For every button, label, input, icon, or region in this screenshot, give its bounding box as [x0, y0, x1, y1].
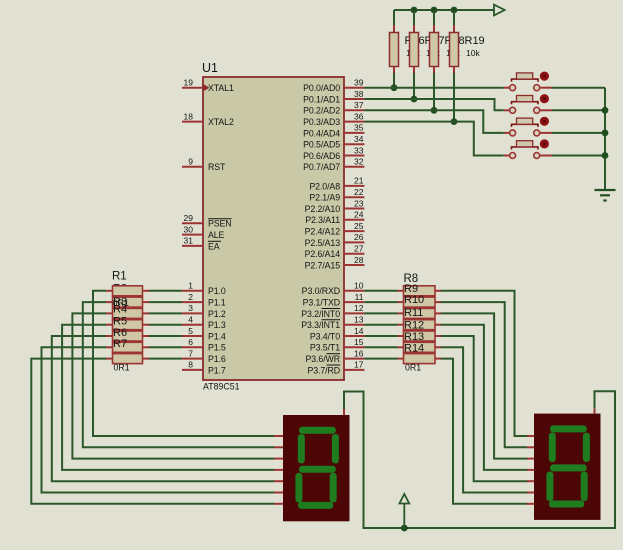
overline RD: [327, 364, 341, 366]
svg-text:P2.7/A15: P2.7/A15: [305, 260, 341, 270]
pin XTAL1 (19) left stub: [182, 87, 203, 89]
wire P0.1 to button SW2: [364, 99, 503, 110]
svg-text:P2.1/A9: P2.1/A9: [309, 193, 340, 203]
svg-text:5: 5: [188, 326, 193, 336]
resistor R19: [450, 33, 459, 67]
svg-text:18: 18: [184, 111, 194, 121]
wire R5 to P1.4: [143, 335, 150, 337]
svg-text:R14: R14: [404, 343, 424, 355]
svg-text:39: 39: [354, 78, 364, 88]
pin RST (9) left stub: [182, 166, 203, 168]
pin P1.5 (6) left stub: [182, 346, 203, 348]
svg-text:P3.1/TXD: P3.1/TXD: [303, 298, 340, 308]
resistor R8 body: [404, 286, 436, 296]
wire R18 top lead: [433, 10, 435, 25]
svg-text:P1.7: P1.7: [208, 365, 226, 375]
svg-text:R12: R12: [404, 320, 424, 332]
ground symbol: [595, 190, 616, 201]
resistor R13 body: [404, 342, 436, 352]
pin P1.1 (2) left stub: [182, 301, 203, 303]
overline INT1: [322, 319, 341, 321]
svg-text:P3.7/RD: P3.7/RD: [307, 365, 340, 375]
wire P3.6 to R14: [364, 358, 397, 360]
pin P2.5/A13 (26) right stub: [344, 241, 364, 243]
svg-text:29: 29: [184, 213, 194, 223]
segment F of right: [549, 433, 556, 462]
svg-text:R10: R10: [404, 294, 424, 306]
svg-text:P2.5/A13: P2.5/A13: [305, 238, 341, 248]
svg-text:7: 7: [188, 348, 193, 358]
wire R17 top lead: [413, 10, 415, 25]
node junction R19 bottom on P0.3 net: [451, 118, 458, 125]
svg-text:P0.5/AD5: P0.5/AD5: [303, 140, 340, 150]
svg-text:P1.3: P1.3: [208, 320, 226, 330]
svg-text:P2.2/A10: P2.2/A10: [305, 204, 341, 214]
svg-text:10: 10: [354, 281, 364, 291]
wire R10 to display pin 3: [435, 312, 441, 314]
svg-text:RST: RST: [208, 162, 226, 172]
wire R6 to display pin 6: [106, 346, 113, 348]
wire P3.3 to R11: [364, 324, 397, 326]
7-segment display left body: [283, 415, 350, 521]
pin P3.4/T0 (14) right stub: [344, 335, 364, 337]
pin XTAL1 clock arrow: [203, 84, 210, 92]
resistor R10 body: [404, 308, 436, 318]
power arrow up (common): [403, 504, 405, 529]
svg-text:16: 16: [354, 348, 364, 358]
svg-text:0R1: 0R1: [114, 363, 130, 373]
segment B of left: [332, 434, 339, 463]
pin P3.2/INT0 (12) right stub: [344, 312, 364, 314]
segment G of left: [299, 466, 336, 473]
svg-text:XTAL2: XTAL2: [208, 117, 234, 127]
svg-text:21: 21: [354, 176, 364, 186]
pin P0.1/AD1 (38) right stub: [344, 98, 364, 100]
resistor R16: [390, 33, 399, 67]
wire P3.1 to R9: [364, 301, 397, 303]
overline INT0: [322, 308, 341, 310]
svg-text:28: 28: [354, 255, 364, 265]
node junction bottom rail at power arrow: [401, 525, 408, 532]
wire R12 to display pin 5: [435, 335, 441, 337]
segment G of right: [550, 464, 587, 471]
wire R1 to P1.0: [143, 290, 150, 292]
svg-text:R7: R7: [113, 338, 127, 350]
pin P2.2/A10 (23) right stub: [344, 208, 364, 210]
resistor R9 body: [404, 297, 436, 307]
svg-text:R6: R6: [113, 327, 127, 339]
node junction SW2 ground: [602, 107, 609, 114]
svg-text:P0.2/AD2: P0.2/AD2: [303, 106, 340, 116]
pin P1.3 (4) left stub: [182, 324, 203, 326]
wire R3 to P1.2: [143, 312, 150, 314]
wire R19 top lead: [453, 10, 455, 25]
pin P3.0/RXD (10) right stub: [344, 290, 364, 292]
svg-text:U1: U1: [202, 61, 218, 75]
svg-text:23: 23: [354, 198, 364, 208]
svg-text:P1.1: P1.1: [208, 298, 226, 308]
pin P1.7 (8) left stub: [182, 369, 203, 371]
svg-text:P3.4/T0: P3.4/T0: [310, 331, 340, 341]
pin P0.0/AD0 (39) right stub: [344, 87, 364, 89]
wire R7 to display pin 7: [106, 358, 113, 360]
svg-text:34: 34: [354, 134, 364, 144]
svg-text:R13: R13: [404, 331, 424, 343]
pin P1.2 (3) left stub: [182, 312, 203, 314]
pin P3.5/T1 (15) right stub: [344, 346, 364, 348]
resistor R6 body: [113, 342, 143, 352]
svg-text:P2.4/A12: P2.4/A12: [305, 227, 341, 237]
svg-text:XTAL1: XTAL1: [208, 83, 234, 93]
node junction R16 bottom on P0.0 net: [391, 84, 398, 91]
svg-text:P3.6/WR: P3.6/WR: [306, 354, 341, 364]
resistor R2 body: [113, 297, 143, 307]
svg-text:P1.5: P1.5: [208, 343, 226, 353]
segment F of left: [298, 434, 305, 463]
svg-text:P0.7/AD7: P0.7/AD7: [303, 162, 340, 172]
svg-text:24: 24: [354, 210, 364, 220]
segment B of right: [583, 433, 590, 462]
wire R16 bottom lead: [393, 67, 395, 74]
svg-text:R4: R4: [113, 304, 127, 316]
wire button SW1 to ground bus: [540, 87, 552, 89]
node junction SW3 ground: [602, 130, 609, 137]
svg-text:31: 31: [184, 236, 194, 246]
svg-text:15: 15: [354, 337, 364, 347]
power arrow right: [494, 5, 505, 16]
pin P1.0 (1) left stub: [182, 290, 203, 292]
push button SW4: [510, 139, 549, 158]
wire ground bus vertical: [604, 88, 606, 189]
segment E of left: [295, 473, 302, 503]
wire R13 to display pin 6: [435, 346, 441, 348]
pin P3.7/RD (17) right stub: [344, 369, 364, 371]
wire button SW2 to ground bus: [540, 109, 552, 111]
resistor R17: [410, 33, 419, 67]
node junction SW4 ground: [602, 152, 609, 159]
svg-text:30: 30: [184, 224, 194, 234]
wire P3.5 to R13: [364, 346, 397, 348]
resistor R18: [430, 33, 439, 67]
wire R4 to P1.3: [143, 324, 150, 326]
pin EA (31) left stub: [182, 245, 203, 247]
pin P0.2/AD2 (37) right stub: [344, 109, 364, 111]
svg-text:P1.2: P1.2: [208, 309, 226, 319]
pin P2.4/A12 (25) right stub: [344, 230, 364, 232]
svg-text:36: 36: [354, 111, 364, 121]
pin P2.0/A8 (21) right stub: [344, 185, 364, 187]
svg-text:27: 27: [354, 244, 364, 254]
wire button SW3 to ground bus: [540, 132, 552, 134]
node junction R17 top: [411, 7, 418, 14]
resistor R12 body: [404, 331, 436, 341]
pin P1.6 (7) left stub: [182, 358, 203, 360]
resistor R1 body: [113, 286, 143, 296]
pin P3.1/TXD (11) right stub: [344, 301, 364, 303]
wire P3.2 to R10: [364, 312, 397, 314]
wire P3.0 to R8: [364, 290, 397, 292]
resistor R5 body: [113, 331, 143, 341]
wire R2 to P1.1: [143, 301, 150, 303]
segment A of left: [299, 427, 336, 434]
wire P0.2 to button SW3: [364, 110, 503, 133]
wire R4 to display pin 4: [106, 324, 113, 326]
segment C of left: [330, 473, 337, 503]
wire P3.4 to R12: [364, 335, 397, 337]
wire R18 bottom lead: [433, 67, 435, 74]
push button SW3: [510, 117, 549, 136]
7-segment display right body: [534, 414, 601, 520]
wire R19 bottom lead: [453, 67, 455, 74]
svg-text:P1.4: P1.4: [208, 331, 226, 341]
wire power bus top: [394, 9, 494, 11]
resistor R4 body: [113, 320, 143, 330]
overline WR: [327, 353, 341, 355]
pin P2.3/A11 (24) right stub: [344, 219, 364, 221]
svg-text:25: 25: [354, 221, 364, 231]
svg-text:R11: R11: [404, 307, 423, 319]
wire P0.3 to button SW4: [364, 122, 503, 156]
node junction R17 bottom on P0.1 net: [411, 96, 418, 103]
pin P0.3/AD3 (36) right stub: [344, 121, 364, 123]
segment D of right: [549, 501, 584, 508]
segment C of right: [581, 472, 588, 502]
push button SW1: [510, 72, 549, 91]
svg-text:P1.0: P1.0: [208, 286, 226, 296]
pin P3.6/WR (16) right stub: [344, 358, 364, 360]
svg-text:22: 22: [354, 187, 364, 197]
svg-text:26: 26: [354, 232, 364, 242]
svg-text:P0.4/AD4: P0.4/AD4: [303, 128, 340, 138]
wire button SW4 to ground bus: [540, 155, 552, 157]
svg-text:6: 6: [188, 337, 193, 347]
wire R3 to display pin 3: [106, 312, 113, 314]
pin XTAL2 (18) left stub: [182, 121, 203, 123]
wire R7 to P1.6: [143, 358, 150, 360]
pin P2.7/A15 (28) right stub: [344, 264, 364, 266]
svg-text:3: 3: [188, 303, 193, 313]
node junction R18 top: [431, 7, 438, 14]
pin PSEN (29) left stub: [182, 222, 203, 224]
node junction R18 bottom on P0.2 net: [431, 107, 438, 114]
pin P0.4/AD4 (35) right stub: [344, 132, 364, 134]
chip U1 AT89C51 body: [203, 77, 344, 380]
svg-text:P0.6/AD6: P0.6/AD6: [303, 151, 340, 161]
svg-text:12: 12: [354, 303, 364, 313]
node junction R19 top: [451, 7, 458, 14]
push button SW2: [510, 94, 549, 113]
wire R16 top lead: [393, 10, 395, 25]
svg-text:11: 11: [355, 292, 364, 302]
svg-text:EA: EA: [208, 241, 220, 251]
svg-text:10k: 10k: [466, 48, 480, 58]
svg-text:ALE: ALE: [208, 230, 225, 240]
svg-text:13: 13: [354, 315, 364, 325]
svg-text:P2.6/A14: P2.6/A14: [305, 249, 341, 259]
segment D of left: [298, 502, 333, 509]
svg-text:14: 14: [354, 326, 364, 336]
segment A of right: [550, 425, 587, 432]
wire P0.0 to button SW1: [364, 87, 503, 89]
resistor R7 body: [113, 354, 143, 364]
svg-text:38: 38: [354, 89, 364, 99]
svg-text:AT89C51: AT89C51: [203, 382, 240, 392]
segment E of right: [546, 472, 553, 502]
overline EA: [208, 240, 221, 242]
svg-text:R1: R1: [112, 271, 127, 283]
wire R5 to display pin 5: [106, 335, 113, 337]
svg-text:P0.0/AD0: P0.0/AD0: [303, 83, 340, 93]
wire R9 to display pin 2: [435, 301, 441, 303]
svg-text:P0.3/AD3: P0.3/AD3: [303, 117, 340, 127]
svg-text:P3.5/T1: P3.5/T1: [310, 343, 340, 353]
wire R1 to display pin 1: [106, 290, 113, 292]
wire left display common to bottom rail: [343, 409, 345, 415]
svg-text:37: 37: [354, 100, 364, 110]
svg-text:4: 4: [188, 315, 193, 325]
wire R6 to P1.5: [143, 346, 150, 348]
resistor R14 body: [404, 354, 436, 364]
svg-text:32: 32: [354, 157, 364, 167]
svg-text:35: 35: [354, 123, 364, 133]
resistor R3 body: [113, 308, 143, 318]
wire R17 bottom lead: [413, 67, 415, 74]
resistor R11 body: [404, 320, 436, 330]
svg-text:1: 1: [188, 281, 193, 291]
pin P0.7/AD7 (32) right stub: [344, 166, 364, 168]
svg-text:P1.6: P1.6: [208, 354, 226, 364]
svg-text:P0.1/AD1: P0.1/AD1: [303, 94, 340, 104]
pin P2.1/A9 (22) right stub: [344, 196, 364, 198]
overline PSEN: [208, 218, 232, 220]
pin P3.3/INT1 (13) right stub: [344, 324, 364, 326]
svg-text:P2.0/A8: P2.0/A8: [309, 181, 340, 191]
pin ALE (30) left stub: [182, 234, 203, 236]
pin P1.4 (5) left stub: [182, 335, 203, 337]
svg-text:17: 17: [354, 360, 364, 370]
svg-text:8: 8: [188, 360, 193, 370]
svg-text:2: 2: [188, 292, 193, 302]
svg-text:P3.2/INT0: P3.2/INT0: [301, 309, 340, 319]
wire R11 to display pin 4: [435, 324, 441, 326]
svg-text:0R1: 0R1: [405, 363, 421, 373]
wire R14 to display pin 7: [435, 358, 441, 360]
wire R2 to display pin 2: [106, 301, 113, 303]
svg-text:33: 33: [354, 145, 364, 155]
svg-text:19: 19: [184, 78, 194, 88]
svg-text:P3.0/RXD: P3.0/RXD: [302, 286, 340, 296]
svg-text:P3.3/INT1: P3.3/INT1: [301, 320, 340, 330]
pin P0.5/AD5 (34) right stub: [344, 143, 364, 145]
svg-text:P2.3/A11: P2.3/A11: [305, 215, 340, 225]
pin P2.6/A14 (27) right stub: [344, 253, 364, 255]
wire R8 to display pin 1: [435, 290, 441, 292]
pin P0.6/AD6 (33) right stub: [344, 155, 364, 157]
svg-text:9: 9: [188, 157, 193, 167]
svg-text:PSEN: PSEN: [208, 219, 232, 229]
svg-text:R19: R19: [465, 35, 485, 47]
